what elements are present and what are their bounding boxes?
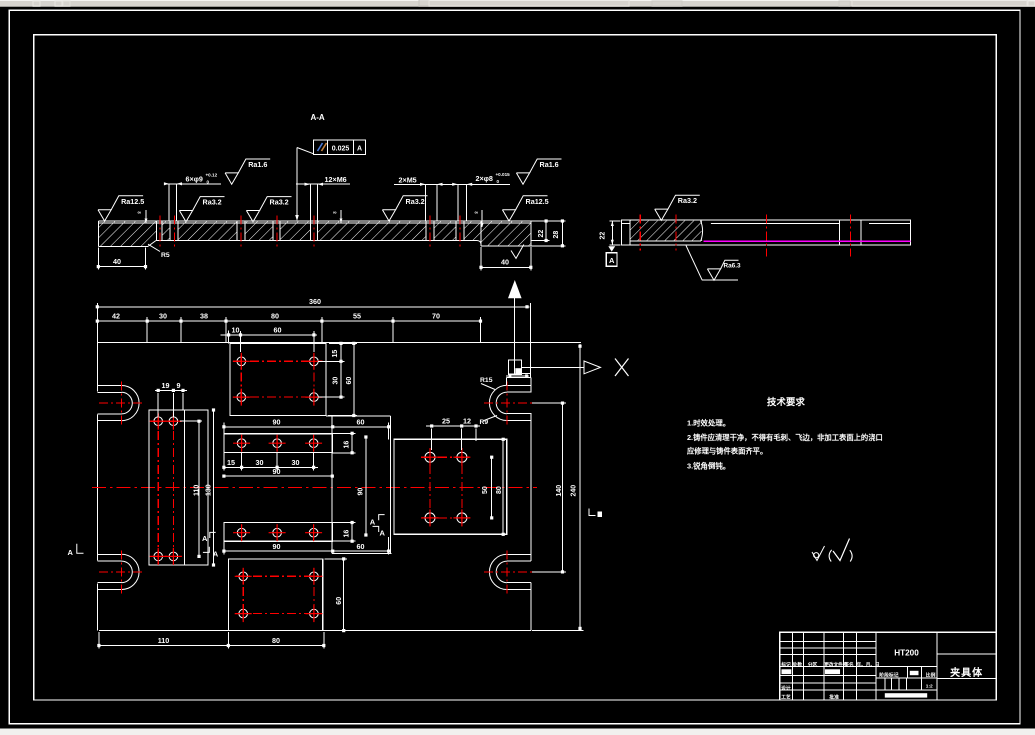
region B hole centerlines [157, 414, 159, 564]
dimension 40 left block [97, 248, 99, 270]
dimension 360 overall [97, 306, 529, 308]
dimension 22 right side of section [531, 220, 566, 222]
svg-text:A: A [213, 550, 219, 559]
svg-text:15: 15 [332, 350, 339, 358]
svg-text:38: 38 [200, 311, 208, 320]
hatch boundary fillet [702, 221, 704, 241]
svg-text:R15: R15 [480, 377, 493, 384]
dimension 2xM5 and 2xd8 line [394, 183, 510, 185]
raised pad square at top right [508, 360, 521, 374]
lower-right U-slot centerlines [506, 550, 508, 593]
svg-text:25: 25 [442, 417, 450, 426]
region D lower rail holes [237, 528, 246, 537]
surface finish Ra6.3 symbol [707, 269, 720, 280]
centerline hole 6 [429, 216, 431, 250]
dimension 6xd9 line [164, 183, 221, 185]
title block middle horizontals [876, 666, 937, 668]
svg-text:Ra3.2: Ra3.2 [203, 198, 222, 207]
region C hole connecting centerlines [233, 360, 323, 362]
right portion top edge [507, 376, 531, 378]
lower-left U-slot centerlines [121, 550, 123, 593]
upper-right U-slot centerlines [506, 381, 508, 424]
upper-right U-slot inner arc [496, 392, 507, 414]
dimension 22 side view [610, 220, 621, 222]
region D lower rail outline [224, 523, 332, 542]
svg-text:110: 110 [158, 636, 170, 645]
region C top boss outline [230, 343, 326, 415]
section mark far right [589, 509, 596, 516]
region F hole connecting centerlines [421, 456, 471, 458]
svg-text:+0.12: +0.12 [206, 172, 218, 177]
svg-text:A: A [202, 534, 208, 543]
svg-text:∞: ∞ [475, 210, 479, 216]
title block left grid horizontals [780, 641, 876, 643]
svg-text:10: 10 [232, 325, 240, 334]
region D upper rail outline [224, 434, 332, 453]
svg-text:Ra12.5: Ra12.5 [121, 197, 144, 206]
dimension 90 60 below lower rail [224, 550, 389, 552]
svg-text:12: 12 [463, 417, 471, 426]
title block middle verticals [907, 667, 909, 678]
side view centerline 2 [675, 215, 677, 251]
dimension 240 overall height [579, 344, 581, 631]
plan view left edge upper [96, 343, 98, 392]
dimension 130 region B height [213, 410, 215, 565]
svg-text:240: 240 [571, 485, 578, 497]
dimension 110 80 bottom [99, 645, 324, 647]
plan view right edge lower [530, 582, 532, 630]
application bottom status strip [0, 729, 1035, 735]
svg-text:80: 80 [272, 636, 280, 645]
svg-text:处数: 处数 [792, 661, 803, 668]
plan view left edge lower [96, 583, 98, 630]
datum A symbol [608, 246, 615, 251]
svg-text:15: 15 [227, 458, 235, 467]
side view top lip lines [704, 222, 839, 224]
region E holes [239, 572, 248, 581]
svg-text:30: 30 [333, 377, 340, 385]
upper-left U-slot outer slot lines [97, 385, 121, 387]
svg-text:批准: 批准 [829, 694, 839, 701]
svg-text:22: 22 [538, 230, 545, 238]
svg-text:70: 70 [432, 311, 440, 320]
svg-text:0.025: 0.025 [332, 145, 350, 152]
dimension 15 30 30 below upper rail [224, 466, 318, 468]
svg-text:0: 0 [497, 179, 500, 184]
svg-text:16: 16 [344, 441, 351, 449]
upper-left U-slot centerlines [121, 382, 123, 425]
svg-text:应修理与铸件表面齐平。: 应修理与铸件表面齐平。 [687, 447, 767, 456]
svg-text:工艺: 工艺 [781, 694, 791, 701]
svg-text:2×M5: 2×M5 [399, 176, 417, 185]
side view body outline [622, 220, 911, 245]
svg-text:Ra3.2: Ra3.2 [270, 198, 289, 207]
svg-text:Ra3.2: Ra3.2 [406, 197, 425, 206]
svg-text:22: 22 [600, 232, 607, 240]
dimension 90 below upper rail [224, 475, 332, 477]
svg-text:Ra12.5: Ra12.5 [526, 197, 549, 206]
svg-text:∞: ∞ [138, 210, 142, 216]
dimension row 42 30 38 80 55 70 [97, 320, 480, 322]
svg-text:A: A [370, 518, 376, 527]
svg-text:Ra3.2: Ra3.2 [678, 196, 697, 205]
svg-text:1.时效处理。: 1.时效处理。 [687, 419, 730, 428]
svg-text:130: 130 [206, 484, 213, 496]
plan view top edge [97, 342, 581, 344]
lower-left U-slot inner arc [122, 561, 133, 583]
svg-text:阶段标记: 阶段标记 [879, 672, 898, 679]
lower-right U-slot inner arc [496, 561, 507, 583]
svg-text:比例: 比例 [926, 672, 936, 679]
svg-text:60: 60 [357, 417, 365, 426]
surface finish Ra1.6 symbol [225, 173, 238, 184]
svg-text:30: 30 [292, 458, 300, 467]
svg-text:9: 9 [177, 381, 181, 390]
svg-text:6×φ9: 6×φ9 [186, 175, 203, 184]
svg-text:40: 40 [113, 257, 121, 266]
centerline hole 1 [159, 216, 161, 250]
centerline hole 7 [459, 216, 461, 250]
dimension 25 12 above region F [426, 425, 480, 427]
centerline hole 5 [313, 216, 315, 250]
dimension 60 right of region C [353, 343, 355, 415]
lower-left U-slot outer slot lines [97, 553, 121, 555]
svg-text:55: 55 [353, 311, 361, 320]
dimension 80 region F height [502, 439, 504, 534]
dimension 50 region F holes [491, 457, 493, 518]
plan view bottom edge [99, 630, 531, 632]
dimension 60 region E right [343, 559, 345, 631]
svg-text:50: 50 [482, 486, 489, 494]
dimension 12xM6 line [296, 183, 350, 185]
dimension 90 60 above rails [224, 426, 389, 428]
upper-left U-slot outer arc [122, 386, 140, 421]
svg-text:42: 42 [112, 311, 120, 320]
section bar hatched body [98, 221, 531, 241]
toolbar button fragments [33, 1, 40, 6]
magenta machined edge line [704, 240, 911, 242]
svg-text:12×M6: 12×M6 [325, 175, 347, 184]
hole gaps in section bar [157, 220, 162, 241]
drawing number blob [885, 693, 927, 697]
svg-text:40: 40 [501, 257, 509, 266]
svg-text:19: 19 [162, 381, 170, 390]
svg-text:A: A [68, 548, 74, 557]
surface finish Ra3.2 symbol [246, 211, 259, 222]
upper-right U-slot outer slot lines [507, 384, 531, 386]
upper-left U-slot inner arc [122, 392, 133, 414]
region F holes [425, 452, 435, 462]
pad small dimension [506, 375, 529, 377]
svg-text:A-A: A-A [310, 113, 324, 122]
centerline hole 2 [174, 216, 176, 250]
svg-text:HT200: HT200 [894, 648, 919, 657]
region C holes [237, 357, 246, 366]
svg-text:360: 360 [309, 297, 321, 306]
svg-text:Ra1.6: Ra1.6 [540, 160, 559, 169]
centerline hole 4 [276, 216, 278, 250]
side view centerline 1 [639, 215, 641, 251]
side view inner bottom line [630, 240, 701, 242]
region E hole connecting centerlines [236, 575, 322, 577]
svg-text:R5: R5 [161, 252, 170, 259]
svg-text:16: 16 [344, 530, 351, 538]
svg-text:设计: 设计 [781, 684, 791, 691]
surface finish Ra1.6 symbol [516, 173, 529, 184]
svg-text:90: 90 [273, 542, 281, 551]
svg-text:28: 28 [553, 231, 560, 239]
plan view right edge upper [530, 377, 532, 392]
svg-text:标记: 标记 [780, 661, 791, 668]
surface finish Ra3.2 symbol [382, 210, 395, 221]
leader to bottom face [686, 246, 702, 281]
svg-text:30: 30 [256, 458, 264, 467]
surface finish Ra3.2 symbol [655, 209, 668, 220]
view direction arrow X right [522, 366, 584, 368]
region E bottom boss outline [228, 559, 322, 631]
svg-text:90: 90 [273, 467, 281, 476]
svg-text:2×φ8: 2×φ8 [476, 174, 493, 183]
svg-text:0: 0 [207, 179, 210, 184]
radius label R5 with leader [148, 244, 160, 251]
dimension 140 slot spacing [562, 403, 564, 572]
svg-text:60: 60 [336, 597, 343, 605]
plan view left edge middle [96, 414, 98, 560]
upper-right U-slot outer arc [489, 385, 507, 420]
section bar outline [98, 220, 531, 222]
centerline hole 3 [240, 216, 242, 250]
dimension 110 region B holes [198, 421, 200, 556]
parallelism feature control frame 0.025 A [314, 140, 366, 154]
svg-text:1:2: 1:2 [926, 684, 933, 690]
svg-text:∞: ∞ [333, 210, 337, 216]
svg-text:A: A [380, 529, 386, 538]
svg-text:60: 60 [357, 542, 365, 551]
region B boss outline [149, 410, 208, 565]
title block left grid verticals [791, 632, 793, 700]
surface finish Ra12.5 symbol [98, 210, 111, 221]
svg-text:Ra1.6: Ra1.6 [248, 160, 267, 169]
svg-text:技术要求: 技术要求 [767, 396, 805, 407]
title block right horizontals [937, 653, 996, 655]
dimension 16 upper rail height [332, 432, 355, 434]
svg-text:80: 80 [496, 486, 503, 494]
plan view right edge middle [530, 413, 532, 561]
lower-left U-slot outer arc [122, 554, 140, 589]
svg-text:30: 30 [159, 311, 167, 320]
dimension 90 rail spacing [365, 437, 367, 535]
svg-text:A: A [609, 256, 615, 265]
signature blobs [782, 669, 792, 674]
svg-text:90: 90 [358, 488, 365, 496]
svg-text:110: 110 [194, 485, 201, 496]
side view centerline 4 [850, 215, 852, 257]
lower-right U-slot outer slot lines [507, 553, 531, 555]
svg-text:80: 80 [271, 311, 279, 320]
surface finish Ra12.5 symbol [502, 210, 515, 221]
region B holes [154, 417, 163, 426]
finish check below right block [511, 245, 524, 259]
svg-text:Ra6.3: Ra6.3 [724, 263, 741, 270]
svg-text:夹具体: 夹具体 [950, 666, 983, 679]
svg-text:140: 140 [556, 485, 563, 497]
application top toolbar strip [0, 0, 1035, 7]
dimension 19 9 above region B [155, 389, 187, 391]
view label X [615, 359, 629, 377]
svg-text:90: 90 [273, 417, 281, 426]
title block outer frame [780, 632, 997, 700]
svg-text:+0.015: +0.015 [496, 172, 511, 177]
other surfaces finish mark [812, 546, 825, 561]
side view hatched wall section [631, 221, 702, 241]
dimension 15 30 right of region C [340, 343, 342, 397]
dimension 16 lower rail height [332, 522, 355, 524]
svg-text:签名: 签名 [843, 661, 854, 668]
central web edges [326, 415, 391, 417]
svg-text:2.铸件应清理干净，不得有毛刺、飞边，非加工表面上的浇口: 2.铸件应清理干净，不得有毛刺、飞边，非加工表面上的浇口 [687, 433, 883, 442]
svg-text:年、月、日: 年、月、日 [857, 661, 880, 668]
svg-text:60: 60 [274, 325, 282, 334]
region F right boss outline [394, 439, 507, 534]
region D upper rail holes [237, 439, 246, 448]
svg-text:A: A [357, 145, 362, 152]
view direction arrow up [508, 280, 522, 298]
svg-text:分区: 分区 [808, 661, 818, 668]
dimension 10 60 above region C [221, 334, 317, 336]
surface finish Ra3.2 symbol [179, 211, 192, 222]
main horizontal centerline [92, 486, 537, 488]
svg-text:3.锐角倒钝。: 3.锐角倒钝。 [687, 462, 730, 471]
lower-right U-slot outer arc [489, 554, 507, 589]
dimension 40 right block [480, 247, 482, 271]
frame leader to bar [297, 148, 314, 154]
dimension row extension lines [146, 317, 148, 343]
side view centerline 3 [766, 215, 768, 257]
dimension 28 right side of section [561, 221, 563, 246]
svg-text:60: 60 [346, 377, 353, 385]
